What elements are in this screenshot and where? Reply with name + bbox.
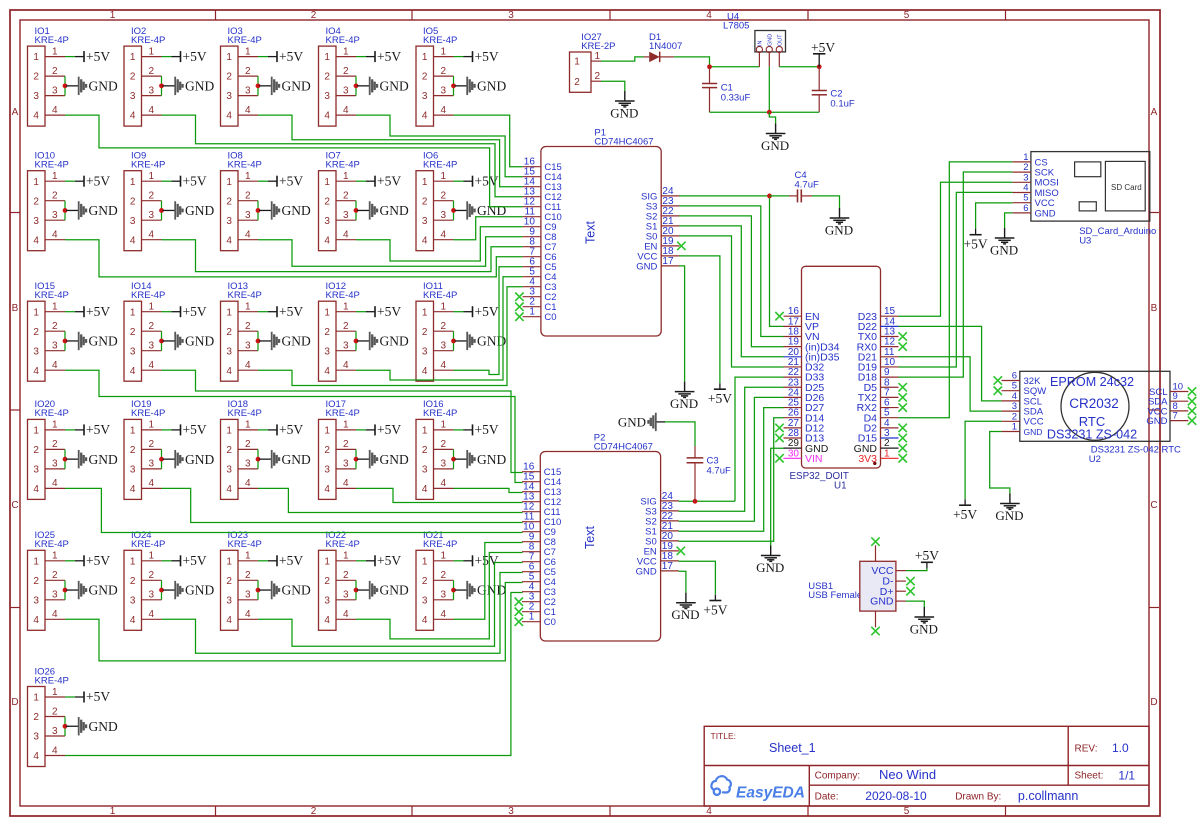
ground flag below ESP32 (756, 546, 784, 575)
USB D- D+ no-connect flags (906, 577, 914, 585)
connector IO3 KRE-4P with +5V flag and GND flag (221, 26, 311, 126)
svg-text:1: 1 (529, 612, 535, 623)
wire IO10.4 to P1 C6 (65, 240, 523, 277)
P2 EN no-connect flag (677, 547, 685, 555)
+5V flag below P2 (703, 595, 727, 618)
capacitor C2 0.1uF (812, 67, 855, 112)
wire P1 VCC to +5V (679, 256, 720, 383)
svg-text:0.33uF: 0.33uF (721, 93, 751, 104)
svg-text:GND: GND (636, 261, 657, 272)
connector IO13 KRE-4P with +5V flag and GND flag (221, 281, 311, 381)
svg-text:4.7uF: 4.7uF (707, 466, 731, 477)
wire C4 to GND (812, 196, 840, 208)
svg-text:+5V: +5V (811, 40, 835, 55)
ground flag below RTC (995, 494, 1023, 523)
connector IO8 KRE-4P with +5V flag and GND flag (221, 151, 311, 251)
svg-text:17: 17 (662, 256, 674, 267)
svg-text:0.1uF: 0.1uF (830, 99, 854, 110)
wire bottom rail C1 to C2 (710, 111, 820, 113)
wire IO26.4 to P2 C3 (65, 593, 523, 756)
wire U4 OUT to +5V and C2 (779, 66, 819, 68)
svg-text:KRE-4P: KRE-4P (326, 35, 360, 46)
module U2 DS3231 ZS-042 RTC (1002, 371, 1189, 466)
ground flag below P2 (671, 593, 699, 622)
wire IO1.4 to P1 C11 (65, 115, 523, 207)
wire ESP32 D18 to SD SCK (899, 172, 1013, 377)
wire P2 GND to ground (679, 571, 686, 592)
connector IO19 KRE-4P with +5V flag and GND flag (124, 399, 214, 499)
svg-text:KRE-4P: KRE-4P (35, 539, 69, 550)
svg-text:KRE-4P: KRE-4P (326, 408, 360, 419)
multiplexer P2 CD74HC4067 (522, 433, 679, 642)
svg-text:1.0: 1.0 (1112, 741, 1129, 755)
svg-text:VIN: VIN (805, 453, 823, 465)
svg-text:1N4007: 1N4007 (649, 41, 682, 52)
svg-text:Sheet:: Sheet: (1075, 771, 1104, 782)
junction C1 node (707, 64, 712, 69)
wire P1 S1 to ESP32 D35 (679, 226, 783, 357)
svg-text:KRE-4P: KRE-4P (131, 539, 165, 550)
+5V flag above USB (915, 548, 939, 569)
svg-text:KRE-4P: KRE-4P (423, 408, 457, 419)
wire USB VCC to +5V (906, 568, 927, 571)
svg-text:Sheet_1: Sheet_1 (769, 741, 816, 755)
svg-text:4: 4 (706, 806, 712, 817)
EasyEDA logo (711, 776, 805, 801)
svg-text:1/1: 1/1 (1118, 769, 1135, 783)
svg-text:KRE-4P: KRE-4P (35, 35, 69, 46)
junction P1 SIG / C4 (767, 194, 772, 199)
svg-text:L7805: L7805 (723, 21, 749, 32)
svg-text:1: 1 (574, 57, 580, 68)
wire IO16.4 to P2 C13 (454, 488, 523, 492)
module U3 SD_Card_Arduino (1013, 152, 1157, 247)
connector IO20 KRE-4P with +5V flag and GND flag (28, 399, 118, 499)
wire IO2.4 to P1 C12 (162, 115, 523, 197)
ground flag left of C3 (618, 413, 665, 431)
svg-text:2: 2 (574, 77, 580, 88)
wire IO4.4 to P1 C14 (356, 115, 523, 177)
svg-text:D: D (1150, 697, 1157, 708)
wire ESP32 D23 to SD MOSI (899, 182, 1013, 316)
svg-text:5: 5 (904, 10, 910, 21)
ground flag below SD (990, 228, 1018, 257)
svg-text:KRE-4P: KRE-4P (228, 35, 262, 46)
svg-text:B: B (1151, 303, 1158, 314)
connector IO21 KRE-4P with +5V flag and GND flag (416, 530, 506, 630)
svg-text:Date:: Date: (815, 792, 839, 803)
svg-text:2: 2 (595, 71, 601, 82)
wire IO6.4 to P1 C10 (454, 217, 523, 240)
svg-text:GND: GND (767, 34, 773, 46)
svg-text:SD Card: SD Card (1111, 183, 1142, 192)
wire P1 S0 to ESP32 D32 (679, 236, 783, 367)
+5V flag below P1 (708, 383, 732, 406)
diode D1 1N4007 (644, 32, 683, 62)
wire P2 SIG to ESP32 D33 with C3 junction (679, 500, 735, 502)
svg-text:TITLE:: TITLE: (711, 731, 737, 741)
wire ESP32 D19 to SD MISO (899, 192, 1013, 367)
connector IO11 KRE-4P with +5V flag and GND flag (416, 281, 506, 381)
svg-text:C: C (1150, 500, 1157, 511)
wire ESP32 D4 to SD CS (899, 162, 1013, 418)
svg-text:U1: U1 (834, 480, 847, 491)
svg-text:Drawn By:: Drawn By: (955, 792, 1001, 803)
wire IO9.4 to P1 C7 (162, 240, 523, 272)
connector IO2 KRE-4P with +5V flag and GND flag (124, 26, 214, 126)
wire IO22.4 to P2 C7 (356, 553, 523, 639)
title block text (711, 731, 1136, 803)
svg-text:Text: Text (583, 526, 597, 549)
wire P2 S3 to ESP32 D25 (679, 387, 784, 511)
wire P2 S2 to ESP32 D26 (679, 397, 784, 521)
svg-text:30: 30 (788, 448, 800, 459)
svg-text:1: 1 (110, 10, 116, 21)
title block (704, 726, 1149, 806)
connector IO5 KRE-4P with +5V flag and GND flag (416, 26, 506, 126)
ESP32 no-connect flags right pins 13 12 8 7 6 4 3 2 1 (899, 332, 907, 340)
connector USB1 USB Female (808, 545, 906, 627)
wire P2 S1 to ESP32 D27 (679, 408, 784, 532)
svg-text:EasyEDA: EasyEDA (736, 785, 805, 802)
+5V flag power rail (811, 40, 835, 67)
P1 no-connect flags C2 C1 C0 (515, 293, 523, 301)
wire IO13.4 to P1 C3 (258, 287, 523, 386)
connector IO9 KRE-4P with +5V flag and GND flag (124, 151, 214, 251)
ground flag below USB (910, 607, 938, 636)
wire P2 VCC to +5V (679, 561, 716, 594)
ground flag power rail (761, 124, 789, 153)
svg-text:KRE-4P: KRE-4P (423, 539, 457, 550)
svg-text:REV:: REV: (1075, 744, 1098, 755)
wire RTC GND to ground (990, 432, 1010, 494)
module U1 ESP32_DOIT (784, 266, 899, 491)
wire IO18.4 to P2 C11 (258, 488, 523, 512)
svg-text:DS3231 ZS-042 RTC: DS3231 ZS-042 RTC (1091, 445, 1181, 456)
svg-text:DS3231 ZS-042: DS3231 ZS-042 (1047, 428, 1137, 442)
svg-text:2: 2 (311, 10, 317, 21)
svg-text:KRE-4P: KRE-4P (423, 35, 457, 46)
svg-text:KRE-4P: KRE-4P (35, 675, 69, 686)
wire IO3.4 to P1 C13 (258, 115, 523, 187)
connector IO12 KRE-4P with +5V flag and GND flag (319, 281, 409, 381)
wire IO27.2 to ground (601, 81, 625, 91)
svg-text:KRE-4P: KRE-4P (423, 160, 457, 171)
svg-text:KRE-4P: KRE-4P (326, 160, 360, 171)
svg-text:C0: C0 (544, 617, 556, 628)
wire USB GND to ground (906, 601, 924, 607)
wire IO19.4 to P2 C10 (162, 488, 523, 522)
svg-text:B: B (12, 303, 19, 314)
connector IO22 KRE-4P with +5V flag and GND flag (319, 530, 409, 630)
svg-text:7: 7 (1173, 411, 1178, 422)
svg-text:A: A (1151, 107, 1158, 118)
svg-text:4.7uF: 4.7uF (795, 179, 819, 190)
svg-text:C0: C0 (544, 312, 556, 323)
svg-text:GND: GND (1035, 208, 1056, 219)
RTC no-connect flags right pins (1188, 387, 1196, 395)
svg-text:GND: GND (636, 566, 657, 577)
svg-text:IN: IN (757, 40, 763, 46)
wire RTC VCC to +5V (965, 421, 1001, 499)
connector IO6 KRE-4P with +5V flag and GND flag (416, 151, 506, 251)
svg-text:2020-08-10: 2020-08-10 (865, 789, 927, 803)
svg-text:CR2032: CR2032 (1069, 396, 1119, 411)
wire IO7.4 to P1 C9 (356, 227, 523, 261)
svg-text:3: 3 (508, 10, 514, 21)
svg-text:KRE-4P: KRE-4P (326, 539, 360, 550)
wire ESP32 GND29 to ground (771, 448, 784, 545)
connector IO10 KRE-4P with +5V flag and GND flag (28, 151, 118, 251)
svg-text:4: 4 (706, 10, 712, 21)
svg-text:KRE-4P: KRE-4P (35, 290, 69, 301)
wire P1 SIG to ESP32 VP with C4 junction (679, 195, 769, 197)
svg-text:Neo Wind: Neo Wind (879, 767, 936, 782)
ESP32 no-connect flags left pins 16 27 28 30 (775, 312, 783, 320)
svg-text:KRE-4P: KRE-4P (131, 290, 165, 301)
wire rail to ground flag (769, 112, 775, 123)
connector IO14 KRE-4P with +5V flag and GND flag (124, 281, 214, 381)
ground flag below IO27 (610, 91, 638, 120)
svg-text:U3: U3 (1079, 236, 1091, 247)
wire IO5.4 to P1 C15 (454, 115, 523, 167)
regulator U4 L7805 (723, 11, 786, 67)
wire P1 S3 to ESP32 VN (679, 206, 783, 337)
svg-text:U2: U2 (1089, 454, 1101, 465)
wire IO24.4 to P2 C5 (162, 573, 523, 654)
svg-text:GND: GND (870, 596, 894, 608)
P2 no-connect flags C2 C1 C0 (515, 598, 523, 606)
wire IO25.4 to P2 C4 (65, 583, 523, 661)
svg-text:5: 5 (904, 806, 910, 817)
junction ground rail (767, 110, 772, 115)
wire P2 S0 to ESP32 D14 (679, 418, 784, 542)
USB shield no-connect flags (871, 537, 879, 545)
capacitor C1 0.33uF (702, 67, 750, 112)
connector IO17 KRE-4P with +5V flag and GND flag (319, 399, 409, 499)
connector IO18 KRE-4P with +5V flag and GND flag (221, 399, 311, 499)
wire SD GND to ground (1005, 213, 1013, 228)
wire IO11.4 to P1 C5 (454, 267, 523, 375)
svg-text:Text: Text (584, 221, 598, 244)
svg-text:KRE-4P: KRE-4P (35, 160, 69, 171)
wire ESP32 D21 to RTC SDA (899, 357, 1002, 411)
svg-text:1: 1 (110, 806, 116, 817)
svg-text:KRE-4P: KRE-4P (131, 408, 165, 419)
multiplexer P1 CD74HC4067 (523, 128, 680, 337)
svg-text:1: 1 (884, 448, 890, 459)
capacitor C4 4.7uF (770, 170, 819, 203)
svg-text:KRE-4P: KRE-4P (131, 160, 165, 171)
svg-text:p.collmann: p.collmann (1018, 789, 1078, 803)
connector IO1 KRE-4P with +5V flag and GND flag (28, 26, 118, 126)
RTC no-connect flags 32K SQW (994, 376, 1002, 384)
junction +5V node (817, 64, 822, 69)
wire IO15.4 to P2 C14 (65, 370, 523, 482)
svg-text:EPROM 24c32: EPROM 24c32 (1050, 375, 1134, 389)
junction P2 SIG / C3 (693, 499, 698, 504)
wire P1 GND to ground (679, 266, 684, 382)
svg-text:KRE-4P: KRE-4P (228, 539, 262, 550)
connector IO26 KRE-4P with +5V flag and GND flag (28, 666, 118, 766)
svg-text:1: 1 (595, 51, 601, 62)
wire IO27.1 to D1 anode (601, 57, 644, 61)
svg-text:KRE-4P: KRE-4P (228, 290, 262, 301)
wire IO8.4 to P1 C8 (258, 237, 523, 267)
svg-text:17: 17 (662, 561, 674, 572)
capacitor C3 4.7uF (687, 446, 731, 501)
wire C3 to GND (665, 422, 695, 446)
connector IO16 KRE-4P with +5V flag and GND flag (416, 399, 506, 499)
svg-text:2: 2 (311, 806, 317, 817)
svg-text:6: 6 (1023, 203, 1028, 214)
wire IO21.4 to P2 C8 (454, 543, 523, 620)
svg-text:C: C (11, 500, 18, 511)
svg-text:A: A (12, 107, 19, 118)
connector IO27 KRE-2P (570, 32, 616, 93)
svg-text:KRE-4P: KRE-4P (228, 160, 262, 171)
svg-text:D: D (11, 697, 18, 708)
wire IO14.4 to P2 C15 (162, 370, 523, 472)
+5V flag below SD (964, 229, 988, 252)
svg-text:USB Female: USB Female (808, 590, 862, 601)
wire D1 to C1 / U4 IN (674, 57, 709, 67)
connector IO4 KRE-4P with +5V flag and GND flag (319, 26, 409, 126)
connector IO23 KRE-4P with +5V flag and GND flag (221, 530, 311, 630)
wire IO23.4 to P2 C6 (258, 563, 523, 647)
connector IO7 KRE-4P with +5V flag and GND flag (319, 151, 409, 251)
svg-text:OUT: OUT (777, 34, 783, 46)
svg-text:KRE-4P: KRE-4P (131, 35, 165, 46)
svg-text:KRE-4P: KRE-4P (326, 290, 360, 301)
svg-text:KRE-4P: KRE-4P (423, 290, 457, 301)
P1 EN no-connect flag (677, 242, 685, 250)
svg-text:GND: GND (1024, 427, 1043, 437)
svg-text:KRE-4P: KRE-4P (228, 408, 262, 419)
connector IO24 KRE-4P with +5V flag and GND flag (124, 530, 214, 630)
ground flag below P1 (670, 382, 698, 411)
wire P1 S2 to ESP32 D34 (679, 216, 783, 347)
connector IO15 KRE-4P with +5V flag and GND flag (28, 281, 118, 381)
wire ESP32 D22 to RTC SCL (899, 326, 1002, 401)
svg-text:3: 3 (508, 806, 514, 817)
wire IO20.4 to P2 C9 (65, 488, 523, 532)
svg-text:1: 1 (1012, 422, 1017, 433)
svg-text:GND: GND (1146, 416, 1167, 427)
+5V flag below RTC (953, 499, 977, 522)
ground flag at C4 (825, 208, 853, 237)
wire U4 GND to bottom rail (768, 67, 770, 112)
svg-text:Company:: Company: (815, 771, 861, 782)
wire IO12.4 to P1 C4 (356, 277, 523, 380)
wire SD VCC to +5V (976, 203, 1013, 229)
svg-text:KRE-4P: KRE-4P (35, 408, 69, 419)
connector IO25 KRE-4P with +5V flag and GND flag (28, 530, 118, 630)
wire IO17.4 to P2 C12 (356, 488, 523, 502)
svg-text:1: 1 (529, 307, 535, 318)
